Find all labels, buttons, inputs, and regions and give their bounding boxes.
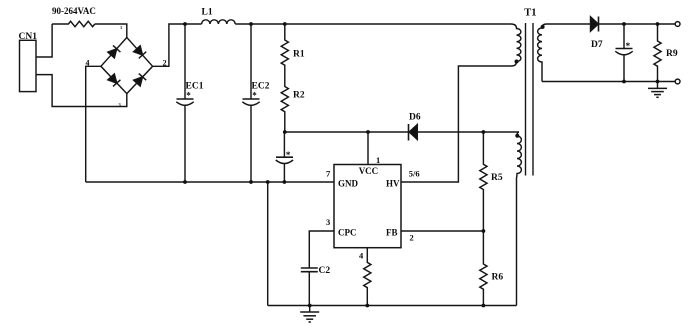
svg-text:*: * [252, 91, 257, 101]
polarity dot secondary [541, 25, 545, 29]
svg-text:D6: D6 [409, 113, 421, 123]
diode D6 [409, 124, 418, 141]
capacitor EC1 [176, 24, 193, 182]
polarity dot aux [515, 134, 519, 138]
capacitor VCC (starred) [276, 132, 293, 182]
diode D7 [591, 17, 599, 32]
ground symbol left [300, 306, 319, 323]
svg-text:R2: R2 [293, 91, 305, 101]
svg-text:1: 1 [376, 155, 380, 165]
svg-text:CN1: CN1 [19, 32, 38, 42]
transformer T1 core [526, 23, 534, 176]
svg-text:90-264VAC: 90-264VAC [52, 6, 96, 16]
connector CN1 body [20, 40, 37, 91]
wire secondary top to terminal [547, 23, 676, 25]
wire pin3 CPC to C2 [309, 231, 334, 268]
resistor pin4 [364, 248, 371, 306]
wire CN1 pin1 to fuse [36, 24, 52, 57]
wire L1 to T1 primary top [235, 23, 511, 25]
resistor R9 [654, 24, 661, 82]
svg-text:T1: T1 [524, 8, 536, 19]
svg-text:VCC: VCC [359, 166, 379, 176]
wire fuse to bridge top [95, 24, 127, 38]
IC U1 box [334, 165, 401, 248]
svg-text:*: * [626, 41, 631, 51]
transformer T1 primary winding [511, 24, 521, 66]
polarity asterisks [186, 41, 630, 160]
svg-text:2: 2 [410, 233, 414, 243]
svg-text:5/6: 5/6 [409, 169, 420, 179]
svg-text:GND: GND [338, 178, 359, 188]
wire bottom rail [268, 305, 517, 307]
wire pin1 VCC [367, 132, 369, 165]
capacitor output (starred) [615, 24, 632, 82]
svg-text:R1: R1 [293, 50, 305, 60]
wire bridge node 2 to DC+ rail [153, 24, 202, 66]
transformer T1 secondary winding [538, 24, 547, 82]
wire pin2 FB [401, 230, 483, 232]
wire ground rail [86, 181, 334, 183]
svg-text:2: 2 [163, 58, 167, 67]
wire VCC node horizontal [285, 131, 519, 133]
svg-text:4: 4 [86, 58, 90, 67]
svg-text:R6: R6 [492, 273, 504, 283]
capacitor EC2 [242, 24, 259, 182]
svg-text:HV: HV [386, 178, 400, 188]
bridge diode bottom-left [107, 74, 120, 87]
bridge diode bottom-right [133, 74, 146, 87]
svg-text:*: * [286, 150, 291, 160]
svg-text:D7: D7 [591, 40, 603, 50]
capacitor C2 [301, 268, 318, 306]
terminal top output [675, 22, 680, 27]
wire pin5/6 HV to primary bottom [401, 66, 512, 182]
svg-text:7: 7 [326, 168, 331, 178]
svg-text:*: * [186, 91, 191, 101]
ground symbol right [648, 82, 667, 98]
svg-text:FB: FB [386, 227, 398, 237]
wire CN1 pin2 to bridge bottom [36, 75, 127, 107]
resistor R5 [480, 132, 487, 231]
bridge diode top-right [133, 45, 146, 58]
svg-text:CPC: CPC [338, 227, 357, 237]
resistor R6 [480, 231, 487, 306]
polarity dot primary [515, 60, 519, 64]
svg-text:R9: R9 [666, 49, 678, 59]
transformer T1 aux winding [517, 132, 522, 306]
wire bridge node 4 to ground rail [86, 66, 101, 182]
wire secondary bottom to terminal [542, 81, 675, 83]
svg-text:4: 4 [359, 251, 364, 261]
bridge rectifier diamond arms [101, 38, 153, 94]
svg-text:C2: C2 [319, 266, 331, 276]
inductor L1 [202, 20, 236, 24]
terminal bottom output [675, 79, 680, 84]
wire ground rail drop to bottom rail [267, 182, 269, 306]
svg-text:3: 3 [326, 217, 330, 227]
bridge diode top-left [107, 45, 120, 58]
resistor R2 [281, 66, 288, 132]
svg-text:R5: R5 [491, 173, 503, 183]
svg-text:1: 1 [120, 25, 123, 30]
svg-text:L1: L1 [202, 7, 213, 17]
fuse / resistor 90-264VAC input [52, 21, 95, 26]
resistor R1 [281, 24, 288, 66]
